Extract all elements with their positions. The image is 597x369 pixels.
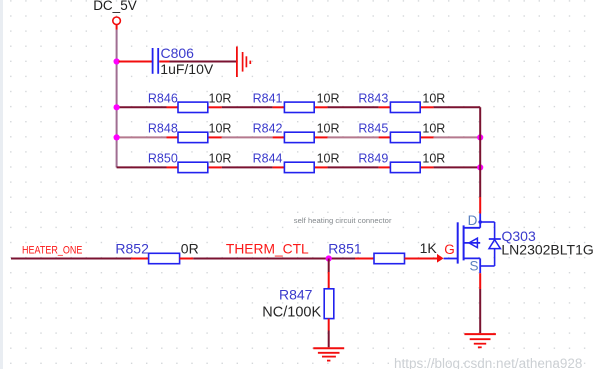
pin junction dot bbox=[478, 220, 482, 224]
svg-text:1K: 1K bbox=[420, 240, 438, 256]
resistor R841 body bbox=[284, 102, 314, 112]
red pin bbox=[379, 106, 391, 108]
wire left vertical bus bbox=[116, 30, 118, 168]
decorative left band bbox=[0, 0, 3, 369]
wire bbox=[222, 136, 273, 138]
gate bar bbox=[457, 222, 459, 263]
source pin bbox=[479, 258, 481, 273]
red pin bbox=[420, 136, 433, 138]
wire to ground bbox=[328, 331, 330, 348]
red pin bbox=[420, 106, 433, 108]
power ground (rotated) at C806 bbox=[236, 47, 238, 78]
svg-text:10R: 10R bbox=[317, 122, 340, 136]
svg-text:R842: R842 bbox=[253, 122, 283, 136]
red pin bbox=[314, 106, 327, 108]
resistor R847 body bbox=[324, 289, 334, 319]
red pin bbox=[379, 166, 391, 168]
svg-text:0R: 0R bbox=[181, 240, 199, 256]
svg-text:LN2302BLT1G: LN2302BLT1G bbox=[501, 242, 593, 258]
svg-text:https://blog.csdn.net/athena92: https://blog.csdn.net/athena928 bbox=[394, 356, 582, 369]
wire THERM_CTL bbox=[193, 258, 355, 260]
red pin bbox=[314, 136, 327, 138]
svg-text:10R: 10R bbox=[317, 152, 340, 166]
wire bbox=[222, 106, 273, 108]
resistor R849 body bbox=[390, 162, 420, 172]
svg-text:C806: C806 bbox=[161, 45, 195, 61]
red pin bbox=[273, 166, 285, 168]
red pin R847 top bbox=[328, 272, 330, 289]
wire red C806 right pin bbox=[159, 61, 169, 63]
svg-text:10R: 10R bbox=[422, 152, 445, 166]
resistor R850 body bbox=[178, 162, 208, 172]
red pin bbox=[167, 106, 179, 108]
source stub bbox=[464, 257, 481, 259]
svg-text:D: D bbox=[468, 213, 478, 228]
red pin bbox=[420, 166, 433, 168]
wire right bus bbox=[479, 107, 481, 197]
red pin bbox=[208, 106, 222, 108]
red pin bbox=[208, 166, 222, 168]
wire red to C806 bbox=[119, 61, 152, 63]
svg-text:DC_5V: DC_5V bbox=[93, 0, 137, 13]
svg-text:NC/100K: NC/100K bbox=[262, 304, 321, 320]
svg-text:self heating circuit connector: self heating circuit connector bbox=[294, 216, 392, 225]
red pin R847 bottom bbox=[328, 319, 330, 331]
wire HEATER_ONE bbox=[11, 258, 131, 260]
channel bar bbox=[463, 225, 465, 260]
resistor R844 body bbox=[284, 162, 314, 172]
drain stub bbox=[464, 227, 481, 229]
svg-text:HEATER_ONE: HEATER_ONE bbox=[22, 245, 83, 257]
red pin R852 right bbox=[180, 258, 194, 260]
svg-text:1uF/10V: 1uF/10V bbox=[160, 61, 214, 77]
junction right bus row3 bbox=[477, 164, 483, 170]
svg-text:10R: 10R bbox=[209, 152, 232, 166]
svg-text:R852: R852 bbox=[115, 240, 149, 256]
wire red below source bbox=[479, 273, 481, 289]
capacitor C806 plates bbox=[152, 48, 154, 74]
red pin R852 left bbox=[131, 258, 149, 260]
svg-text:R850: R850 bbox=[148, 152, 178, 166]
junction R847 branch bbox=[326, 255, 332, 261]
resistor R852 body bbox=[149, 253, 180, 263]
junction left bus row1 bbox=[114, 104, 120, 110]
wire bbox=[222, 166, 273, 168]
wire red stub below port bbox=[116, 25, 118, 30]
svg-text:R843: R843 bbox=[358, 91, 388, 105]
wire C806 to ground bbox=[170, 61, 237, 63]
wire to right bus bbox=[434, 136, 481, 138]
wire row y=167.4 seg1 bbox=[117, 166, 167, 168]
resistor R845 body bbox=[390, 132, 420, 142]
wire row y=107.3 seg1 bbox=[117, 106, 167, 108]
wire bbox=[328, 106, 379, 108]
bulk stub bbox=[464, 242, 481, 244]
diode triangle bbox=[489, 240, 500, 249]
red pin bbox=[273, 106, 285, 108]
red pin bbox=[314, 166, 327, 168]
red pin bbox=[167, 136, 179, 138]
svg-text:10R: 10R bbox=[422, 122, 445, 136]
wire red to Q303 drain bbox=[479, 197, 481, 214]
red pin bbox=[379, 136, 391, 138]
wire down from junction bbox=[328, 259, 330, 273]
red pin bbox=[208, 136, 222, 138]
svg-text:S: S bbox=[470, 258, 479, 273]
svg-text:R848: R848 bbox=[148, 122, 178, 136]
svg-text:R849: R849 bbox=[358, 152, 388, 166]
svg-text:R851: R851 bbox=[328, 240, 362, 256]
drain pin bbox=[479, 214, 481, 228]
svg-text:R844: R844 bbox=[253, 152, 283, 166]
ground below Q303 bbox=[464, 333, 496, 335]
red pin R851 left bbox=[355, 258, 374, 260]
wire row y=137.4 seg1 bbox=[117, 136, 167, 138]
bulk arrow bbox=[469, 238, 477, 247]
svg-text:THERM_CTL: THERM_CTL bbox=[226, 242, 309, 257]
svg-text:10R: 10R bbox=[422, 91, 445, 105]
wire bbox=[328, 136, 379, 138]
diode cathode bar bbox=[489, 238, 501, 240]
svg-text:10R: 10R bbox=[317, 91, 340, 105]
svg-text:10R: 10R bbox=[209, 122, 232, 136]
ground below R847 bbox=[313, 347, 344, 349]
wire red to gate bbox=[405, 258, 438, 260]
wire to ground bbox=[479, 289, 481, 333]
power port circle DC_5V bbox=[113, 17, 121, 25]
wire bbox=[328, 166, 379, 168]
wire to right bus bbox=[434, 106, 481, 108]
junction at C806 branch bbox=[114, 58, 120, 64]
svg-text:10R: 10R bbox=[209, 91, 232, 105]
red pin bbox=[167, 166, 179, 168]
gate pin wire bbox=[444, 258, 458, 260]
svg-text:R845: R845 bbox=[358, 122, 388, 136]
wire to right bus bbox=[434, 166, 481, 168]
svg-text:R847: R847 bbox=[279, 287, 313, 303]
resistor R846 body bbox=[178, 102, 208, 112]
svg-text:R846: R846 bbox=[148, 91, 178, 105]
resistor R848 body bbox=[178, 132, 208, 142]
svg-text:R841: R841 bbox=[253, 91, 283, 105]
red arrow into gate bbox=[437, 254, 444, 263]
resistor R851 body bbox=[374, 253, 405, 263]
red pin bbox=[273, 136, 285, 138]
resistor R842 body bbox=[284, 132, 314, 142]
body diode branch bbox=[480, 221, 494, 223]
resistor R843 body bbox=[390, 102, 420, 112]
junction right bus row2 bbox=[477, 134, 483, 140]
junction left bus row2 bbox=[114, 134, 120, 140]
svg-text:G: G bbox=[444, 242, 455, 257]
